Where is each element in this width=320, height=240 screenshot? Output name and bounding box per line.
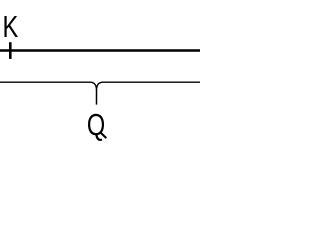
brace Q label tail stroke [101,133,106,138]
node K tick mark [9,42,12,59]
wire: main horizontal line [0,49,200,52]
brace Q: horizontal brace with downward cusp [0,82,200,104]
svg-text:Q: Q [87,109,105,142]
svg-text:K: K [3,11,19,44]
